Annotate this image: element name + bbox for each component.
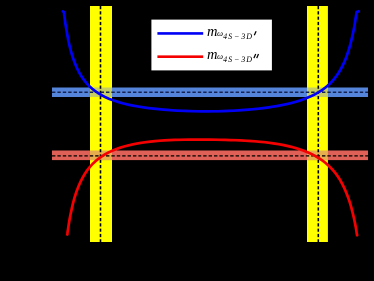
blue/yellow overlap 2 — [307, 88, 328, 98]
legend label 1 — [207, 24, 253, 40]
red/yellow overlap 2 — [307, 151, 328, 161]
legend label 2 — [207, 47, 253, 63]
vertical dashed line 1 — [100, 6, 102, 242]
red band dashed centerline — [52, 155, 368, 157]
yellow vertical band 2 — [307, 6, 328, 242]
vertical dashed line 2 — [317, 6, 319, 242]
prime tick label1 — [254, 31, 256, 35]
red/yellow overlap 1 — [90, 151, 112, 161]
blue horizontal band — [52, 88, 368, 98]
double prime ticks label2 — [254, 54, 256, 58]
legend red line sample — [157, 55, 203, 58]
blue/yellow overlap 1 — [90, 88, 112, 98]
blue band dashed centerline — [52, 91, 368, 93]
red horizontal band — [52, 151, 368, 161]
legend box — [151, 19, 273, 71]
legend blue line sample — [157, 32, 203, 35]
blue curve m_omega 4S-3D prime — [63, 11, 359, 111]
yellow vertical band 1 — [90, 6, 112, 242]
red curve m_omega 4S-3D double prime — [67, 140, 357, 236]
